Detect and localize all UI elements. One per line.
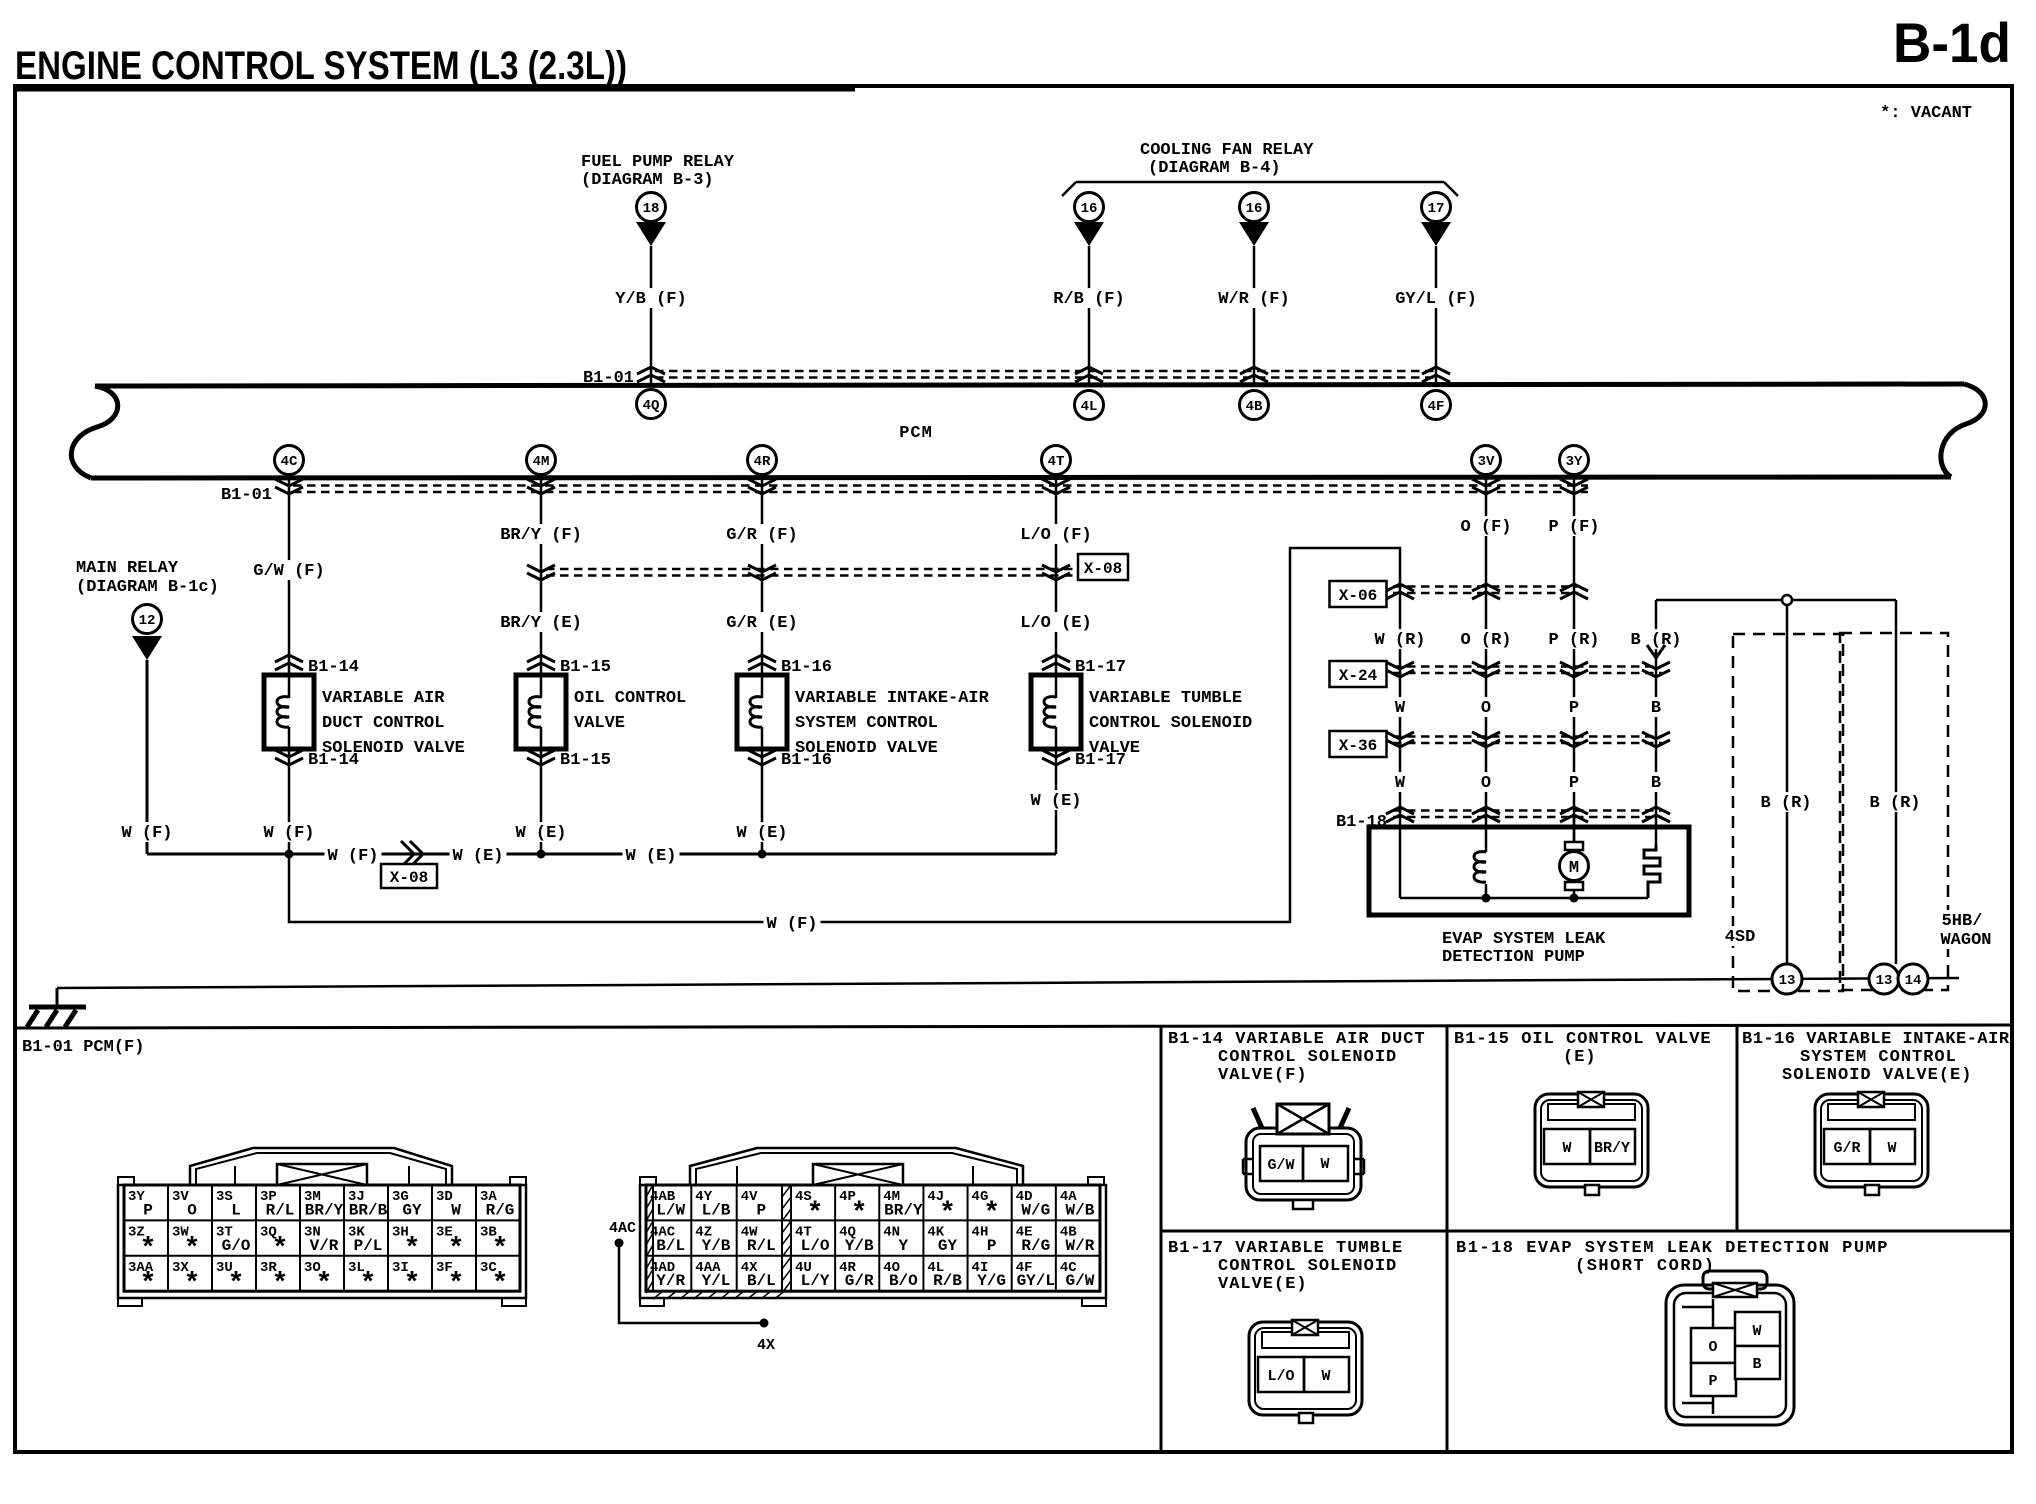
svg-text:P: P — [987, 1237, 997, 1255]
svg-text:B (R): B (R) — [1760, 794, 1811, 813]
svg-text:*: * — [272, 1269, 289, 1300]
svg-text:B1-15 OIL CONTROL VALVE: B1-15 OIL CONTROL VALVE — [1454, 1030, 1712, 1049]
svg-text:B/L: B/L — [747, 1272, 776, 1290]
svg-text:Y/R: Y/R — [656, 1272, 685, 1290]
svg-text:R/B (F): R/B (F) — [1053, 290, 1124, 309]
svg-text:EVAP SYSTEM LEAK: EVAP SYSTEM LEAK — [1442, 930, 1606, 949]
svg-text:(DIAGRAM B-1c): (DIAGRAM B-1c) — [76, 578, 219, 597]
svg-text:P (R): P (R) — [1548, 631, 1599, 650]
svg-text:DUCT CONTROL: DUCT CONTROL — [322, 714, 444, 733]
svg-text:CONTROL SOLENOID: CONTROL SOLENOID — [1089, 714, 1252, 733]
svg-text:VARIABLE TUMBLE: VARIABLE TUMBLE — [1089, 689, 1242, 708]
svg-text:L/B: L/B — [702, 1201, 731, 1219]
svg-text:18: 18 — [643, 201, 660, 217]
svg-text:13: 13 — [1779, 973, 1796, 989]
svg-text:B1-01: B1-01 — [583, 369, 634, 388]
svg-text:X-24: X-24 — [1339, 667, 1378, 685]
svg-text:R/G: R/G — [1021, 1237, 1050, 1255]
svg-text:B/O: B/O — [889, 1272, 918, 1290]
svg-text:16: 16 — [1246, 201, 1263, 217]
svg-text:B1-17 VARIABLE TUMBLE: B1-17 VARIABLE TUMBLE — [1168, 1239, 1403, 1258]
svg-text:4V: 4V — [741, 1189, 758, 1205]
svg-text:O (F): O (F) — [1460, 518, 1511, 537]
svg-text:P: P — [143, 1201, 153, 1219]
svg-text:4Q: 4Q — [643, 398, 660, 414]
svg-text:Y/L: Y/L — [702, 1272, 731, 1290]
svg-text:B/L: B/L — [656, 1237, 685, 1255]
svg-text:W/R: W/R — [1066, 1237, 1095, 1255]
svg-text:W (E): W (E) — [736, 824, 787, 843]
svg-text:4F: 4F — [1428, 399, 1445, 415]
svg-text:G/W (F): G/W (F) — [253, 562, 324, 581]
svg-text:ENGINE CONTROL SYSTEM (L3 (2.3: ENGINE CONTROL SYSTEM (L3 (2.3L)) — [15, 44, 627, 88]
svg-text:16: 16 — [1081, 201, 1098, 217]
svg-text:X-06: X-06 — [1339, 587, 1377, 605]
svg-text:*: * — [228, 1269, 245, 1300]
svg-text:PCM: PCM — [899, 424, 933, 443]
svg-text:*: * — [184, 1269, 201, 1300]
svg-text:G/R (E): G/R (E) — [726, 614, 797, 633]
svg-text:VALVE(E): VALVE(E) — [1218, 1275, 1308, 1294]
svg-text:*: * — [316, 1269, 333, 1300]
svg-text:L/O (E): L/O (E) — [1020, 614, 1091, 633]
svg-text:Y: Y — [899, 1237, 909, 1255]
svg-text:R/G: R/G — [486, 1201, 515, 1219]
svg-text:14: 14 — [1905, 973, 1922, 989]
svg-text:COOLING FAN RELAY: COOLING FAN RELAY — [1140, 141, 1314, 160]
svg-text:W/B: W/B — [1066, 1201, 1095, 1219]
svg-text:B (R): B (R) — [1869, 794, 1920, 813]
svg-text:CONTROL SOLENOID: CONTROL SOLENOID — [1218, 1257, 1397, 1276]
svg-text:SYSTEM CONTROL: SYSTEM CONTROL — [1800, 1048, 1957, 1067]
svg-text:V/R: V/R — [310, 1237, 339, 1255]
svg-text:OIL CONTROL: OIL CONTROL — [574, 689, 686, 708]
svg-text:B1-01 PCM(F): B1-01 PCM(F) — [22, 1038, 144, 1057]
svg-text:R/L: R/L — [747, 1237, 776, 1255]
svg-text:G/R: G/R — [1833, 1140, 1860, 1157]
svg-text:BR/B: BR/B — [349, 1201, 388, 1219]
svg-text:G/R: G/R — [845, 1272, 874, 1290]
svg-text:17: 17 — [1428, 201, 1445, 217]
svg-text:BR/Y: BR/Y — [1594, 1140, 1630, 1157]
svg-text:DETECTION PUMP: DETECTION PUMP — [1442, 948, 1585, 967]
svg-text:O: O — [187, 1201, 197, 1219]
svg-text:4C: 4C — [281, 454, 298, 470]
svg-text:B1-15: B1-15 — [560, 751, 611, 770]
svg-text:W: W — [1395, 699, 1406, 718]
svg-text:W/R (F): W/R (F) — [1218, 290, 1289, 309]
svg-text:W (E): W (E) — [1030, 792, 1081, 811]
svg-text:B-1d: B-1d — [1893, 11, 2011, 74]
svg-text:*: VACANT: *: VACANT — [1880, 104, 1972, 123]
svg-text:X-08: X-08 — [390, 869, 428, 887]
svg-text:W: W — [1562, 1140, 1571, 1157]
svg-text:O: O — [1481, 699, 1491, 718]
svg-text:O: O — [1708, 1339, 1717, 1356]
svg-text:G/W: G/W — [1066, 1272, 1095, 1290]
svg-text:W: W — [451, 1201, 461, 1219]
svg-text:4B: 4B — [1246, 399, 1263, 415]
svg-text:Y/G: Y/G — [977, 1272, 1006, 1290]
svg-text:L/O (F): L/O (F) — [1020, 526, 1091, 545]
svg-text:(DIAGRAM B-3): (DIAGRAM B-3) — [581, 171, 714, 190]
svg-text:BR/Y (F): BR/Y (F) — [500, 526, 582, 545]
svg-text:GY/L (F): GY/L (F) — [1395, 290, 1477, 309]
svg-text:P (F): P (F) — [1548, 518, 1599, 537]
svg-text:4AC: 4AC — [609, 1220, 636, 1237]
svg-text:4T: 4T — [1048, 454, 1065, 470]
svg-text:4L: 4L — [1081, 399, 1098, 415]
svg-text:SOLENOID VALVE(E): SOLENOID VALVE(E) — [1782, 1066, 1972, 1085]
svg-text:BR/Y: BR/Y — [884, 1201, 923, 1219]
svg-text:G/R (F): G/R (F) — [726, 526, 797, 545]
svg-text:B: B — [1651, 699, 1661, 718]
svg-text:B1-01: B1-01 — [221, 486, 272, 505]
svg-text:W (R): W (R) — [1374, 631, 1425, 650]
svg-text:W (F): W (F) — [327, 847, 378, 866]
svg-text:4X: 4X — [757, 1337, 775, 1354]
svg-text:R/L: R/L — [266, 1201, 295, 1219]
svg-text:*: * — [404, 1269, 421, 1300]
svg-text:W (E): W (E) — [515, 824, 566, 843]
svg-text:*: * — [140, 1269, 157, 1300]
svg-text:VALVE(F): VALVE(F) — [1218, 1066, 1308, 1085]
svg-text:L/Y: L/Y — [801, 1272, 830, 1290]
svg-text:W (F): W (F) — [263, 824, 314, 843]
svg-text:CONTROL SOLENOID: CONTROL SOLENOID — [1218, 1048, 1397, 1067]
svg-text:GY: GY — [402, 1201, 422, 1219]
svg-text:G/O: G/O — [222, 1237, 251, 1255]
svg-text:VALVE: VALVE — [574, 714, 625, 733]
svg-text:13: 13 — [1876, 973, 1893, 989]
svg-text:W: W — [1321, 1368, 1330, 1385]
svg-text:VARIABLE AIR: VARIABLE AIR — [322, 689, 445, 708]
svg-text:*: * — [448, 1269, 465, 1300]
svg-text:P: P — [1569, 699, 1579, 718]
svg-text:W: W — [1887, 1140, 1896, 1157]
svg-text:MAIN RELAY: MAIN RELAY — [76, 559, 179, 578]
svg-text:P/L: P/L — [354, 1237, 383, 1255]
svg-text:L/W: L/W — [656, 1201, 685, 1219]
svg-text:L/O: L/O — [1267, 1368, 1294, 1385]
svg-text:B1-16 VARIABLE INTAKE-AIR: B1-16 VARIABLE INTAKE-AIR — [1742, 1030, 2010, 1049]
svg-text:B1-18 EVAP SYSTEM LEAK DETECTI: B1-18 EVAP SYSTEM LEAK DETECTION PUMP — [1456, 1239, 1889, 1258]
svg-text:L/O: L/O — [801, 1237, 830, 1255]
svg-text:W (E): W (E) — [452, 847, 503, 866]
svg-text:W/G: W/G — [1021, 1201, 1050, 1219]
svg-text:W: W — [1320, 1156, 1329, 1173]
svg-text:L: L — [231, 1201, 241, 1219]
svg-text:VALVE: VALVE — [1089, 739, 1140, 758]
svg-text:W (F): W (F) — [766, 915, 817, 934]
svg-text:B: B — [1651, 774, 1661, 793]
svg-text:P: P — [1708, 1373, 1717, 1390]
svg-text:W (E): W (E) — [625, 847, 676, 866]
svg-text:W (F): W (F) — [121, 824, 172, 843]
svg-text:3Y: 3Y — [1566, 454, 1583, 470]
svg-text:12: 12 — [139, 613, 156, 629]
svg-text:B: B — [1752, 1356, 1761, 1373]
svg-text:B1-14 VARIABLE AIR DUCT: B1-14 VARIABLE AIR DUCT — [1168, 1030, 1426, 1049]
svg-text:WAGON: WAGON — [1940, 931, 1991, 950]
svg-text:O: O — [1481, 774, 1491, 793]
svg-text:P: P — [757, 1201, 767, 1219]
svg-text:Y/B: Y/B — [702, 1237, 731, 1255]
svg-text:W: W — [1752, 1323, 1761, 1340]
svg-text:VARIABLE INTAKE-AIR: VARIABLE INTAKE-AIR — [795, 689, 990, 708]
svg-text:5HB/: 5HB/ — [1942, 912, 1983, 931]
svg-text:*: * — [492, 1269, 509, 1300]
svg-text:3V: 3V — [1478, 454, 1495, 470]
svg-text:(DIAGRAM B-4): (DIAGRAM B-4) — [1148, 159, 1281, 178]
svg-text:Y/B: Y/B — [845, 1237, 874, 1255]
svg-text:SOLENOID VALVE: SOLENOID VALVE — [322, 739, 465, 758]
svg-text:(SHORT CORD): (SHORT CORD) — [1575, 1257, 1715, 1276]
svg-text:P: P — [1569, 774, 1579, 793]
svg-text:M: M — [1569, 859, 1579, 878]
svg-text:O (R): O (R) — [1460, 631, 1511, 650]
svg-text:X-08: X-08 — [1084, 560, 1122, 578]
svg-text:BR/Y: BR/Y — [305, 1201, 344, 1219]
svg-text:*: * — [360, 1269, 377, 1300]
svg-text:SYSTEM CONTROL: SYSTEM CONTROL — [795, 714, 938, 733]
svg-text:Y/B (F): Y/B (F) — [615, 290, 686, 309]
svg-text:FUEL PUMP RELAY: FUEL PUMP RELAY — [581, 153, 735, 172]
svg-text:X-36: X-36 — [1339, 737, 1377, 755]
svg-text:R/B: R/B — [933, 1272, 962, 1290]
svg-text:BR/Y (E): BR/Y (E) — [500, 614, 582, 633]
svg-text:4R: 4R — [754, 454, 771, 470]
svg-text:B (R): B (R) — [1630, 631, 1681, 650]
svg-text:G/W: G/W — [1267, 1157, 1294, 1174]
svg-text:SOLENOID VALVE: SOLENOID VALVE — [795, 739, 938, 758]
svg-text:4SD: 4SD — [1725, 928, 1756, 947]
svg-text:GY: GY — [938, 1237, 958, 1255]
svg-text:GY/L: GY/L — [1017, 1272, 1055, 1290]
svg-text:W: W — [1395, 774, 1406, 793]
svg-text:(E): (E) — [1563, 1048, 1597, 1067]
svg-text:4M: 4M — [533, 454, 550, 470]
